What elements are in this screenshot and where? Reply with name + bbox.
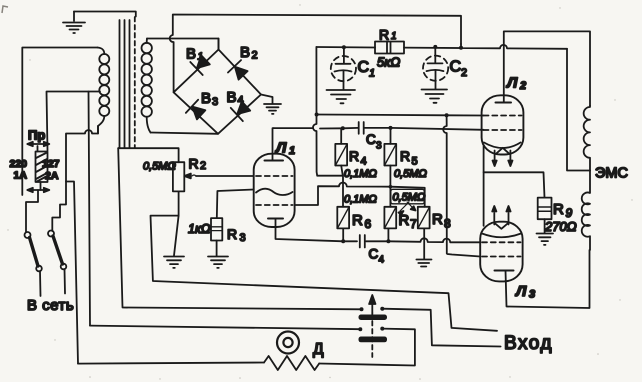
svg-text:R: R: [553, 201, 564, 218]
svg-text:1: 1: [369, 68, 375, 80]
transformer secondary winding: [142, 39, 152, 133]
svg-text:В: В: [227, 89, 237, 106]
svg-text:0,1МΩ: 0,1МΩ: [344, 194, 377, 206]
diode B2: [228, 60, 250, 81]
node C1 top: [342, 45, 346, 49]
wire Л1 plate to C3 row: [273, 128, 274, 160]
svg-text:4: 4: [379, 255, 385, 266]
resistor R1: [375, 42, 404, 54]
ground under R3: [208, 257, 228, 268]
svg-text:0,5МΩ: 0,5МΩ: [394, 168, 427, 180]
node R4 top: [341, 126, 345, 130]
svg-text:4: 4: [361, 156, 367, 168]
potentiometer R2: [118, 148, 184, 215]
svg-text:Д: Д: [313, 341, 324, 358]
tube Л3 (output, inverted): [480, 222, 522, 282]
wire screen link Л2 to Л3: [443, 115, 480, 256]
wire heater loop to switch left contacts: [90, 326, 360, 330]
capacitor C2: [422, 47, 449, 103]
svg-text:5: 5: [412, 156, 418, 168]
switch S1b (mains knife switch right): [48, 231, 66, 294]
tube Л2 (output): [482, 95, 524, 154]
svg-text:3: 3: [240, 232, 246, 244]
node screen row tap: [315, 113, 319, 117]
lamp ballast zigzag: [264, 356, 319, 370]
resistor R6: [337, 207, 349, 242]
wire C3 coupling row: [274, 128, 484, 130]
wire cathode link Л2-Л3: [483, 146, 485, 226]
capacitor C3: [359, 122, 364, 134]
svg-text:R: R: [189, 156, 199, 172]
ground under R9: [537, 234, 554, 245]
bridge diamond: [174, 50, 261, 134]
wire heater tap down: [89, 92, 91, 326]
capacitor C4: [360, 235, 365, 248]
svg-text:R: R: [432, 211, 443, 228]
node R5 top: [389, 126, 393, 130]
wire 127 tap: [47, 92, 101, 151]
svg-text:1: 1: [289, 145, 295, 157]
transformer primary winding: [98, 48, 110, 134]
svg-text:270Ω: 270Ω: [544, 219, 577, 234]
diode B3: [186, 100, 207, 122]
svg-text:Вход: Вход: [504, 333, 553, 354]
wire branch to lamp loop: [66, 182, 78, 364]
ground under R8: [416, 260, 431, 267]
svg-text:2: 2: [200, 160, 206, 172]
node R6 bottom: [341, 239, 345, 243]
corner mark: [2, 6, 8, 13]
switch S1a (mains knife switch left): [25, 232, 42, 296]
svg-text:2: 2: [461, 67, 467, 79]
svg-text:R: R: [379, 27, 389, 43]
capacitor C1: [327, 47, 357, 103]
svg-text:Л: Л: [275, 140, 287, 157]
wiper of R2 to Л1 grid: [184, 174, 253, 179]
wire B+ to EMC centre tap: [567, 49, 590, 171]
resistor R9: [538, 198, 552, 233]
svg-text:В сеть: В сеть: [27, 297, 74, 314]
wire zigzag to switch: [319, 329, 415, 366]
EMC speaker field coil lower: [582, 171, 590, 251]
fuse selector bottom arrow: [27, 188, 49, 192]
svg-text:В: В: [186, 46, 196, 63]
tube Л1 (double triode): [254, 154, 295, 227]
svg-text:0,5МΩ: 0,5МΩ: [143, 161, 176, 173]
svg-text:R: R: [227, 226, 237, 242]
svg-text:1кΩ: 1кΩ: [188, 222, 211, 236]
input switch gang bars: [359, 315, 388, 343]
node B+ drop: [459, 46, 463, 50]
wire R2 bottom branch to input loop: [151, 216, 498, 331]
ground (transformer shield ground): [63, 12, 85, 34]
wire secondary top to bridge AC top: [147, 39, 219, 50]
input switch link arrow: [369, 295, 375, 357]
svg-text:1: 1: [198, 52, 204, 63]
node screen link: [445, 113, 449, 117]
wire B+ riser to screens and loads: [313, 47, 343, 176]
svg-text:R: R: [352, 212, 363, 229]
node C2 top: [433, 45, 437, 49]
svg-text:5кΩ: 5кΩ: [377, 55, 400, 70]
wire screen grid row to Л2: [317, 115, 484, 116]
wire lamp loop bottom: [78, 363, 264, 364]
wire primary top to 220 rail: [22, 48, 97, 196]
svg-text:1: 1: [391, 31, 397, 42]
svg-text:R: R: [400, 148, 410, 164]
label 0,5МΩ (R7) with pointer: [391, 189, 426, 215]
svg-text:7: 7: [410, 217, 417, 231]
switch contact dots: [358, 307, 384, 332]
wire R2 top to input switch: [118, 148, 361, 309]
fuse selector top arrow: [27, 142, 49, 146]
node divider X: [389, 185, 393, 189]
EMC speaker field coil upper: [584, 106, 590, 171]
svg-text:127: 127: [42, 158, 60, 170]
resistor R4: [335, 128, 347, 207]
svg-text:С: С: [366, 132, 376, 147]
resistor R3: [211, 190, 254, 257]
svg-text:2А: 2А: [45, 170, 59, 182]
ground under R2: [164, 216, 184, 268]
svg-text:R: R: [349, 148, 359, 164]
svg-text:С: С: [358, 59, 370, 76]
wire Л3 plate to EMC bottom: [506, 250, 590, 308]
svg-text:В: В: [240, 44, 250, 61]
svg-text:2: 2: [252, 50, 258, 62]
diode B1: [190, 53, 211, 75]
heater pins Л2: [493, 151, 513, 167]
wire Л1 lower grid to divider: [295, 182, 425, 206]
svg-text:6: 6: [365, 217, 372, 231]
svg-text:В: В: [201, 90, 211, 107]
svg-text:1А: 1А: [14, 170, 28, 182]
wire primary bottom: [52, 126, 98, 231]
resistor R8: [418, 207, 430, 259]
svg-text:9: 9: [566, 206, 573, 220]
svg-text:220: 220: [10, 158, 28, 170]
svg-text:0,1МΩ: 0,1МΩ: [344, 168, 377, 180]
wire switch to lower input jack: [382, 309, 500, 347]
resistor R5: [384, 128, 396, 207]
svg-text:Пр: Пр: [28, 128, 45, 143]
wire C4 coupling row: [276, 219, 481, 243]
transformer core: [120, 17, 135, 148]
wire secondary bottom to bridge AC bottom: [151, 133, 219, 134]
svg-text:Л: Л: [506, 75, 518, 92]
fuse Пр: [26, 146, 48, 232]
svg-text:С: С: [450, 59, 462, 76]
svg-text:3: 3: [212, 96, 218, 108]
wire Л2 plate to EMC top: [504, 31, 590, 105]
svg-text:Л: Л: [515, 283, 527, 300]
svg-text:3: 3: [529, 289, 535, 301]
wire ground to core shield: [74, 12, 136, 17]
wire B+ row: [316, 44, 567, 49]
svg-text:С: С: [369, 247, 379, 262]
wire B+ top rail: [170, 15, 461, 93]
heater pins Л3: [492, 206, 510, 225]
diode B4: [231, 99, 252, 121]
resistor R7: [384, 207, 396, 242]
node R7 bottom: [386, 239, 390, 243]
wire cathode tee to R9: [484, 172, 545, 197]
pilot lamp Д: [277, 332, 299, 354]
svg-text:4: 4: [238, 95, 244, 107]
svg-text:3: 3: [376, 141, 382, 152]
svg-text:2: 2: [519, 80, 526, 92]
ground at bridge negative node: [261, 95, 281, 114]
svg-text:ЭМС: ЭМС: [595, 166, 628, 182]
